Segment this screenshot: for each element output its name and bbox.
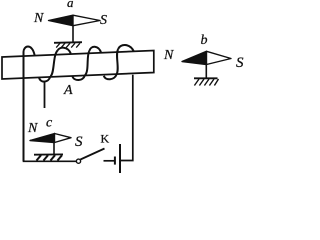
wire: segment from switch to battery: [104, 160, 115, 162]
battery short plate (negative): [114, 157, 116, 165]
svg-text:K: K: [101, 132, 110, 146]
coil top bump 3: [89, 47, 101, 53]
compass needle c: [30, 134, 71, 143]
stand of compass a (base with hatching on core): [54, 26, 82, 48]
coil front strand 3: [117, 49, 119, 74]
coil front strand 1: [50, 50, 57, 76]
coil bottom bump 1: [39, 76, 50, 81]
svg-text:N: N: [33, 11, 44, 26]
battery long plate (positive): [119, 144, 121, 173]
svg-text:N: N: [163, 48, 174, 63]
svg-text:S: S: [236, 55, 244, 71]
switch K lever (open): [80, 149, 104, 160]
coil bottom bump 2: [72, 75, 85, 80]
wire: coil left lead + top turn 1: [23, 47, 34, 162]
svg-text:S: S: [100, 13, 107, 28]
wire: bottom left segment: [23, 160, 77, 162]
iron core A (bar): [2, 51, 154, 80]
coil bottom bump 3: [104, 74, 117, 79]
svg-text:b: b: [201, 33, 208, 48]
svg-text:N: N: [27, 121, 38, 136]
wire: coil stub lead down from bottom bump 1: [44, 81, 46, 108]
stand of compass c: [34, 142, 63, 161]
svg-text:a: a: [67, 0, 74, 10]
wire: battery to right riser: [121, 75, 133, 161]
stand of compass b: [194, 64, 219, 86]
coil top bump 2: [58, 48, 71, 54]
svg-text:A: A: [63, 83, 73, 98]
switch K pivot: [76, 159, 80, 163]
compass needle a (black N half, white S half): [49, 15, 101, 26]
svg-text:S: S: [75, 134, 83, 150]
svg-text:c: c: [46, 116, 53, 131]
compass needle b: [182, 51, 231, 64]
coil front strand 2: [85, 51, 89, 75]
coil top bump 4: [118, 45, 134, 51]
